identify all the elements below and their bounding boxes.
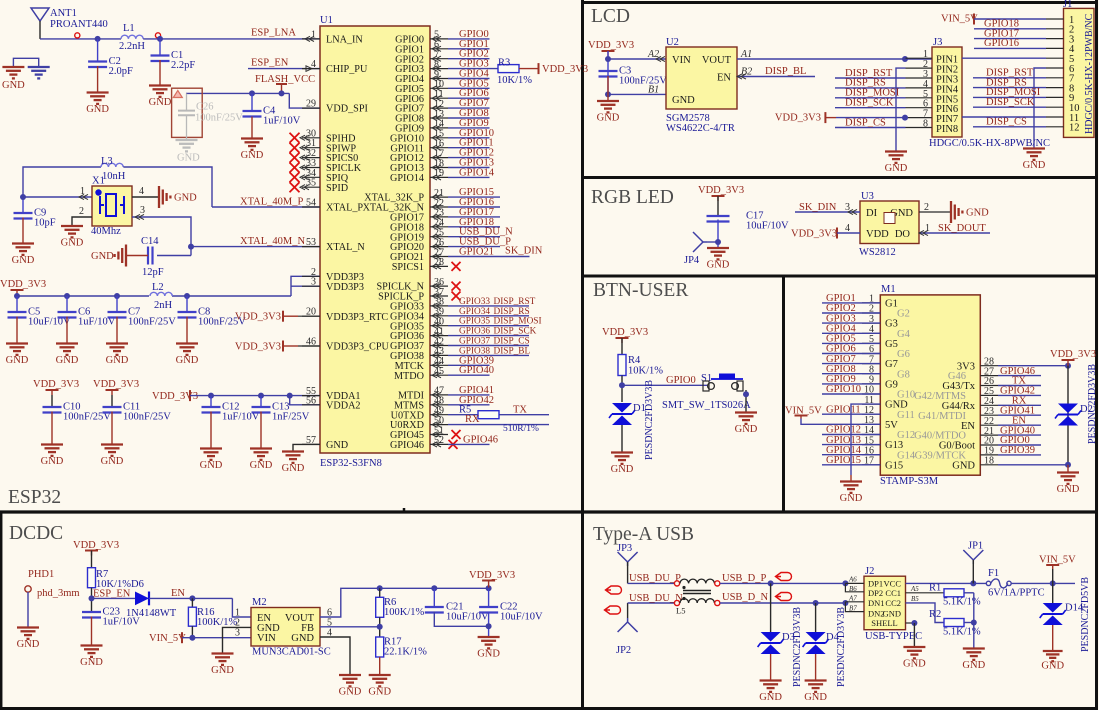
wire net TX	[998, 385, 1041, 387]
wires DISP signals to J3	[835, 77, 906, 79]
svg-text:phd_3mm: phd_3mm	[37, 588, 80, 599]
X1 pin4 to GND	[132, 196, 158, 198]
ground R1 R2	[963, 647, 985, 649]
svg-text:GND: GND	[477, 649, 500, 660]
M1 pin 7 G7	[862, 363, 880, 365]
svg-text:SK_DIN: SK_DIN	[799, 202, 837, 213]
svg-text:PROANT440: PROANT440	[50, 19, 108, 30]
capacitor C22	[488, 588, 490, 607]
capacitor C1	[159, 39, 161, 56]
svg-text:GPIO14: GPIO14	[390, 173, 424, 184]
wire SK_DIN to U3	[795, 211, 860, 213]
wire RX U0RXD	[448, 424, 549, 426]
svg-text:M2: M2	[252, 597, 267, 608]
svg-text:DISP_SCK: DISP_SCK	[494, 327, 537, 337]
svg-text:DISP_CS: DISP_CS	[494, 337, 530, 347]
svg-text:GND: GND	[903, 659, 926, 670]
jumper JP4	[693, 232, 703, 242]
svg-text:DI: DI	[866, 208, 878, 219]
inductor L3	[23, 167, 101, 197]
svg-text:B7: B7	[849, 605, 857, 613]
svg-text:GND: GND	[326, 440, 348, 451]
M1 pin 11 GND	[862, 403, 880, 405]
wire net GPIO21	[448, 256, 530, 258]
svg-text:R4: R4	[628, 355, 641, 366]
wire net GPIO41	[998, 414, 1041, 416]
svg-text:GND: GND	[177, 153, 200, 164]
svg-text:VDD_3V3: VDD_3V3	[235, 312, 281, 323]
svg-text:B5: B5	[911, 595, 919, 603]
svg-text:PESDNC2FD3V3B: PESDNC2FD3V3B	[644, 380, 655, 460]
svg-text:J3: J3	[933, 37, 942, 48]
svg-text:DISP_MOSI: DISP_MOSI	[494, 317, 542, 327]
svg-text:GND: GND	[883, 608, 901, 618]
svg-text:VOUT: VOUT	[702, 55, 732, 66]
svg-text:L2: L2	[152, 282, 164, 293]
capacitor C17	[707, 215, 730, 217]
svg-text:2: 2	[924, 202, 929, 213]
M1 pin11 GND wire	[851, 404, 880, 475]
capacitor C3	[599, 70, 618, 72]
ground C17	[707, 247, 729, 249]
resistor R7	[88, 568, 96, 588]
svg-text:RGB LED: RGB LED	[591, 187, 674, 208]
svg-text:U3: U3	[861, 191, 874, 202]
svg-text:VDD3P3_CPU: VDD3P3_CPU	[326, 342, 389, 353]
svg-text:4: 4	[845, 223, 850, 234]
svg-text:DISP_CS: DISP_CS	[986, 117, 1027, 128]
ground M2 pin2	[212, 652, 234, 654]
resistor R16	[191, 598, 193, 607]
svg-text:1: 1	[925, 223, 930, 234]
svg-text:1nF/25V: 1nF/25V	[272, 412, 310, 423]
svg-text:VDD_3V3: VDD_3V3	[791, 229, 837, 240]
svg-text:PESDNC2FD3V3B: PESDNC2FD3V3B	[1087, 364, 1098, 444]
svg-text:100nF/25V: 100nF/25V	[195, 112, 243, 123]
wire net RX	[998, 404, 1041, 406]
svg-text:VDD_3V3: VDD_3V3	[775, 113, 821, 124]
svg-text:1uF/10V: 1uF/10V	[263, 116, 301, 127]
wire GPIO0 to S1	[622, 384, 707, 386]
svg-text:GND: GND	[735, 424, 758, 435]
svg-text:GND: GND	[962, 660, 985, 671]
svg-text:VDD_3V3: VDD_3V3	[698, 185, 744, 196]
svg-text:GND: GND	[174, 193, 197, 204]
M1 pin 14 G12	[862, 434, 880, 436]
ground C5	[6, 342, 28, 344]
svg-text:C14: C14	[141, 236, 159, 247]
X1 pin2 to GND	[72, 217, 92, 225]
M1 pin 12 G11	[862, 413, 880, 415]
svg-text:ESP_EN: ESP_EN	[251, 58, 289, 69]
svg-text:GPIO46: GPIO46	[390, 440, 424, 451]
open pin ring	[155, 33, 160, 38]
wire XTAL_40M_P	[212, 206, 320, 208]
svg-text:3: 3	[140, 205, 145, 216]
IC U2 SGM2578	[666, 47, 737, 109]
connector J3	[932, 47, 962, 137]
svg-text:DISP_RST: DISP_RST	[494, 297, 536, 307]
wire FLASH_VCC rail	[186, 92, 289, 94]
svg-text:XTAL_40M_N: XTAL_40M_N	[240, 236, 305, 247]
connector J1	[1064, 8, 1095, 137]
svg-text:HDGC/0.5K-HX-12PWB/NC: HDGC/0.5K-HX-12PWB/NC	[1084, 13, 1095, 134]
wire net GPIO5	[448, 87, 490, 89]
svg-text:G5: G5	[885, 339, 898, 350]
svg-text:SK_DIN: SK_DIN	[505, 245, 543, 256]
svg-text:100nF/25V: 100nF/25V	[619, 76, 667, 87]
svg-text:GPIO10: GPIO10	[826, 384, 861, 395]
M1 pin 8 G8	[862, 373, 880, 375]
wire M2 VOUT rail	[320, 588, 489, 617]
ground D4	[805, 679, 827, 681]
svg-text:SK_DOUT: SK_DOUT	[938, 223, 986, 234]
svg-text:G6: G6	[897, 349, 910, 360]
svg-text:GND: GND	[41, 456, 64, 467]
svg-text:USB_D_P: USB_D_P	[722, 573, 767, 584]
svg-text:VDD_3V3: VDD_3V3	[152, 391, 198, 402]
svg-text:3: 3	[845, 202, 850, 213]
M1 pin 22 EN	[980, 424, 998, 426]
svg-text:DISP_SCK: DISP_SCK	[845, 98, 894, 109]
capacitor C2	[97, 39, 99, 62]
power VDD_3V3 R3	[538, 63, 540, 74]
ground pair top-left	[13, 58, 38, 66]
svg-text:GND: GND	[80, 657, 103, 668]
wire M1 GND pin18	[998, 464, 1068, 466]
svg-text:GND: GND	[200, 460, 223, 471]
J2 left pin stubs	[842, 580, 848, 586]
svg-text:G4: G4	[897, 329, 911, 340]
svg-text:A6: A6	[848, 576, 857, 584]
svg-text:PHD1: PHD1	[28, 569, 54, 580]
M1 pin 24 G44/Rx	[980, 404, 998, 406]
svg-text:SMT_SW_1TS026A: SMT_SW_1TS026A	[662, 400, 751, 411]
svg-text:VDD_SPI: VDD_SPI	[326, 104, 368, 115]
wire net GPIO15	[448, 196, 500, 198]
svg-text:GPIO15: GPIO15	[826, 455, 861, 466]
wire J2 VCC to fuse	[906, 582, 988, 584]
ground C1	[149, 84, 171, 86]
capacitor C13	[260, 396, 262, 407]
svg-text:ESP32-S3FN8: ESP32-S3FN8	[320, 458, 382, 469]
ground M1	[840, 480, 862, 482]
svg-text:GND: GND	[6, 355, 29, 366]
svg-text:2.2pF: 2.2pF	[171, 60, 195, 71]
ground J1 pin6	[1034, 68, 1046, 148]
wire net GPIO7	[448, 107, 490, 109]
resistor R3	[498, 65, 519, 73]
module M1 STAMP-S3M	[880, 295, 980, 475]
wire net GPIO2	[448, 58, 490, 60]
svg-text:F1: F1	[988, 568, 999, 579]
svg-text:PESDNC2FD3V3B: PESDNC2FD3V3B	[836, 607, 847, 687]
TVS diode D1	[612, 403, 632, 413]
svg-text:ESP32: ESP32	[8, 487, 61, 508]
ground J2 shell	[903, 646, 925, 648]
capacitor C5	[16, 296, 18, 312]
svg-text:VDD_3V3: VDD_3V3	[588, 40, 634, 51]
svg-text:L1: L1	[123, 23, 135, 34]
transformer L5 coil P	[680, 579, 714, 583]
ground C10	[41, 443, 63, 445]
wire L1 to U1 pin1 ESP_LNA	[143, 38, 320, 40]
svg-text:GND: GND	[952, 460, 975, 471]
svg-text:10pF: 10pF	[34, 218, 56, 229]
svg-text:BTN-USER: BTN-USER	[593, 280, 688, 301]
wire net EN	[998, 424, 1041, 426]
wire net GPIO12	[448, 157, 490, 159]
svg-text:MTDO: MTDO	[394, 371, 424, 382]
ground C6	[56, 342, 78, 344]
antenna ANT1	[31, 8, 49, 21]
svg-text:J2: J2	[865, 566, 874, 577]
wire net GPIO39	[998, 454, 1041, 456]
svg-text:2.2nH: 2.2nH	[119, 41, 145, 52]
svg-text:DO: DO	[895, 229, 911, 240]
svg-text:B6: B6	[849, 585, 857, 593]
diode D6 1N4148WT	[92, 597, 136, 599]
svg-text:100K/1%: 100K/1%	[384, 607, 425, 618]
wire M2 FB	[320, 626, 380, 628]
ground D1	[611, 451, 633, 453]
wire net GPIO14	[448, 176, 490, 178]
ground C9	[12, 242, 34, 244]
svg-text:GND: GND	[149, 97, 172, 108]
svg-text:C26: C26	[196, 102, 214, 113]
svg-text:VDD_3V3: VDD_3V3	[33, 379, 79, 390]
svg-text:CHIP_PU: CHIP_PU	[326, 64, 368, 75]
crystal X1	[23, 196, 92, 198]
svg-text:SPID: SPID	[326, 183, 348, 194]
svg-text:GND: GND	[2, 80, 25, 91]
svg-text:2.0pF: 2.0pF	[109, 66, 133, 77]
resistor R17	[376, 637, 384, 657]
wire R1 R2 to GND	[973, 593, 975, 648]
M1 pin 23 G41/MTDI	[980, 414, 998, 416]
resistor R4	[618, 355, 626, 376]
svg-text:GND: GND	[1057, 484, 1080, 495]
power FLASH_VCC	[276, 83, 287, 85]
wire net GPIO6	[448, 97, 490, 99]
wire U2 EN DISP_BL	[737, 76, 815, 78]
svg-text:GPIO33: GPIO33	[459, 297, 490, 307]
svg-text:U1: U1	[320, 15, 333, 26]
svg-text:ANT1: ANT1	[50, 8, 77, 19]
ground C7	[106, 342, 128, 344]
IC U1 ESP32-S3FN8	[320, 26, 430, 453]
svg-text:VDD3P3_RTC: VDD3P3_RTC	[326, 312, 388, 323]
M1 pin 27 G46	[980, 375, 998, 377]
wire PIN1 net to J1 pin5	[962, 57, 1046, 59]
svg-text:GND: GND	[707, 260, 730, 271]
M1 pin 28 3V3	[980, 365, 998, 367]
svg-text:VDD_3V3: VDD_3V3	[602, 327, 648, 338]
resistor R5 TX	[448, 414, 478, 416]
X1 pin3 wire	[132, 217, 191, 256]
wires GPIO to J1	[974, 28, 1046, 30]
svg-text:GND: GND	[17, 639, 40, 650]
svg-text:10uF/10V: 10uF/10V	[746, 221, 789, 232]
svg-text:4: 4	[139, 186, 144, 197]
svg-text:2: 2	[79, 206, 84, 217]
svg-text:GND: GND	[611, 464, 634, 475]
wire DISP_CS to J3 PIN8	[835, 127, 906, 129]
ground PHD1	[17, 626, 39, 628]
svg-text:GND: GND	[86, 104, 109, 115]
M1 pin 17 G15	[862, 464, 880, 466]
svg-text:PESDNC2FD3V3B: PESDNC2FD3V3B	[792, 607, 803, 687]
wire net GPIO9	[448, 127, 490, 129]
ground C11	[101, 443, 123, 445]
svg-text:GND: GND	[840, 493, 863, 504]
svg-text:SHELL: SHELL	[871, 618, 897, 628]
wire USB_DU_N	[628, 602, 674, 604]
svg-text:VDDA2: VDDA2	[326, 400, 361, 411]
svg-text:A7: A7	[848, 595, 857, 603]
wire net USB_DU_N	[448, 236, 500, 238]
capacitor C6	[66, 296, 68, 312]
connector J2 USB-TYPEC	[864, 576, 906, 630]
svg-text:DISP_RS: DISP_RS	[494, 307, 530, 317]
svg-text:WS2812: WS2812	[859, 247, 896, 258]
svg-text:XTAL_N: XTAL_N	[326, 242, 365, 253]
svg-text:GPIO40: GPIO40	[459, 365, 494, 376]
ground J3	[885, 150, 907, 152]
svg-text:A5: A5	[910, 585, 919, 593]
svg-text:GND: GND	[61, 238, 84, 249]
svg-text:GND: GND	[291, 633, 314, 644]
svg-text:GND: GND	[282, 463, 305, 474]
svg-text:GND: GND	[966, 208, 989, 219]
svg-text:RX: RX	[465, 414, 480, 425]
ghost capacitor C26	[172, 88, 203, 137]
svg-text:GPIO35: GPIO35	[459, 317, 490, 327]
diff pair key USB_DU_N	[605, 606, 621, 614]
ground U1 pin57	[293, 444, 320, 451]
svg-text:G3: G3	[885, 319, 898, 330]
svg-text:JP1: JP1	[968, 541, 983, 552]
wire ESP_EN to U1 pin4	[248, 68, 320, 70]
svg-text:2nH: 2nH	[154, 300, 173, 311]
svg-text:USB_D_N: USB_D_N	[722, 592, 769, 603]
ground D2	[1057, 471, 1079, 473]
svg-text:GND: GND	[368, 687, 391, 698]
ground C8	[176, 342, 198, 344]
svg-text:L3: L3	[101, 156, 113, 167]
M1 pin 9 G9	[862, 383, 880, 385]
svg-text:GPIO37: GPIO37	[459, 337, 490, 347]
svg-text:MUN3CAD01-SC: MUN3CAD01-SC	[252, 647, 331, 658]
svg-text:DISP_BL: DISP_BL	[494, 346, 531, 356]
wire SK_DOUT	[919, 232, 990, 234]
svg-text:GND: GND	[804, 692, 827, 703]
wire net GPIO36|DISP_SCK	[448, 335, 529, 337]
svg-text:M1: M1	[881, 284, 896, 295]
svg-text:GND: GND	[211, 665, 234, 676]
svg-text:3: 3	[235, 628, 240, 639]
svg-text:J1: J1	[1063, 0, 1072, 10]
wire net GPIO16	[448, 206, 500, 208]
wire USB_D_P	[720, 582, 845, 584]
ground M2 pin4	[339, 674, 361, 676]
capacitor C8	[186, 296, 188, 312]
wires GPIO nets to M1 left	[822, 302, 880, 304]
diff pair key USB_DU_P	[606, 586, 622, 594]
wire net GPIO39	[448, 364, 490, 366]
ground C22	[478, 636, 500, 638]
svg-text:GND: GND	[885, 163, 908, 174]
TVS diode D2	[1067, 366, 1069, 465]
wire net GPIO17	[448, 216, 500, 218]
ground R17	[369, 674, 391, 676]
M1 pin 25 G42/MTMS	[980, 394, 998, 396]
svg-text:VDD_3V3: VDD_3V3	[73, 540, 119, 551]
wire net GPIO18	[448, 226, 500, 228]
svg-text:LNA_IN: LNA_IN	[326, 35, 363, 46]
wire net GPIO10	[448, 137, 490, 139]
wire USB_DU_P	[628, 582, 674, 584]
IC U3 WS2812	[860, 201, 919, 244]
svg-text:JP2: JP2	[616, 645, 631, 656]
svg-text:GPIO0: GPIO0	[666, 375, 696, 386]
svg-text:VIN_5V: VIN_5V	[941, 14, 978, 25]
svg-text:10K/1%: 10K/1%	[497, 75, 532, 86]
M1 pin 3 G3	[862, 322, 880, 324]
wire net GPIO41	[448, 394, 490, 396]
ground C4	[241, 137, 263, 139]
M1 pin 16 G14	[862, 454, 880, 456]
svg-text:R3: R3	[498, 58, 510, 69]
wire 3V3 rail	[17, 295, 291, 297]
svg-text:EN: EN	[171, 588, 185, 599]
svg-text:G7: G7	[885, 359, 898, 370]
svg-text:U2: U2	[666, 37, 679, 48]
wire EN node	[149, 597, 232, 599]
svg-text:GPIO34: GPIO34	[459, 307, 490, 317]
wire net GPIO40	[448, 374, 490, 376]
diff pair key right N	[776, 593, 792, 601]
svg-text:PIN8: PIN8	[936, 124, 958, 135]
svg-text:CC1: CC1	[885, 588, 901, 598]
M1 pin 20 G0/Boot	[980, 444, 998, 446]
svg-text:10uF/10V: 10uF/10V	[500, 612, 543, 623]
svg-text:G9: G9	[885, 380, 898, 391]
M1 pin 18 GND	[980, 464, 998, 466]
svg-text:5.1K/1%: 5.1K/1%	[943, 627, 981, 638]
svg-text:22.1K/1%: 22.1K/1%	[384, 647, 427, 658]
node junction C1	[157, 36, 163, 42]
svg-text:GND: GND	[12, 255, 35, 266]
svg-text:WS4622C-4/TR: WS4622C-4/TR	[666, 123, 735, 134]
ground D14	[1043, 650, 1063, 652]
M1 pin 1 G1	[862, 302, 880, 304]
svg-text:VDD_3V3: VDD_3V3	[235, 342, 281, 353]
ground C13	[250, 447, 272, 449]
svg-text:JP4: JP4	[684, 255, 700, 266]
svg-text:VDD: VDD	[866, 229, 889, 240]
IC M2 MUN3CAD01-SC	[251, 608, 320, 647]
svg-text:10nH: 10nH	[102, 171, 126, 182]
svg-text:GND: GND	[106, 355, 129, 366]
svg-text:PESDNC2FD5VB: PESDNC2FD5VB	[1080, 577, 1091, 652]
svg-text:GPIO46: GPIO46	[463, 434, 498, 445]
svg-text:DCDC: DCDC	[9, 523, 63, 544]
svg-text:GND: GND	[56, 355, 79, 366]
svg-text:100K/1%: 100K/1%	[197, 617, 238, 628]
wire net GPIO37|DISP_CS	[448, 345, 529, 347]
svg-text:G15: G15	[885, 460, 903, 471]
